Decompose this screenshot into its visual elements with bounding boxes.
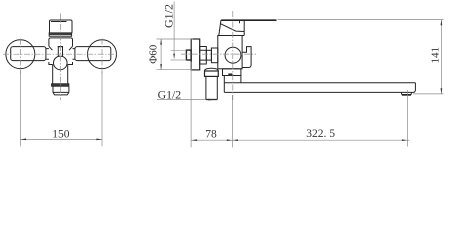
spout collar under body [223,69,241,76]
spout tip taper front [53,92,69,95]
diverter knob circle side [225,47,241,63]
svg-text:322. 5: 322. 5 [306,128,335,140]
pipe side [206,50,211,60]
spout lower section front [53,86,69,92]
union tube right [75,47,111,61]
arrow G1/2 bottom leader [208,99,214,101]
centerline vertical right circle [101,39,103,75]
diverter knob circle front [54,56,68,70]
wall pipe thin lines [170,50,186,60]
svg-text:141: 141 [430,47,442,64]
spout nut band front [52,84,69,86]
wall flange circle right [88,40,117,69]
diverter stem front [58,47,62,57]
union nut side [200,47,207,65]
cartridge cap front [50,20,73,33]
pipe segment left [46,49,49,60]
centerline vertical main front [60,14,62,101]
arrow 78 right [227,139,233,141]
dim line 141 [440,20,442,94]
stem top cap [58,46,63,48]
arrow 150 left [20,139,26,141]
aerator tip [401,92,411,94]
arrow 150 right [96,139,102,141]
centerline horizontal side view [181,53,256,55]
wall pipe stub [186,50,191,60]
ext line phi60 top [157,38,194,40]
cap flange front [49,33,71,36]
svg-text:G1/2: G1/2 [158,87,182,101]
dim line bottom right view [191,139,409,141]
centerline vertical body side [232,11,234,100]
ext line 78/322.5 shared [231,95,233,147]
aerator bottom [402,94,411,96]
ext line 141 top [278,19,444,21]
leader G1/2 bottom shelf [157,99,206,101]
arrow phi60 bottom [160,64,162,70]
arrow 141 bottom [441,88,443,94]
pipe segment right [73,49,75,60]
arrow G1/2 top leader [173,54,175,60]
outlet tube bottom [206,99,217,101]
body top plate line [218,35,244,37]
ext line 322.5 right [407,90,409,147]
svg-text:150: 150 [52,128,69,140]
centerline horizontal front view [3,53,118,55]
union tube left [11,47,46,61]
shower outlet boss side [242,47,251,68]
union nut facets [200,50,207,60]
wall flange circle left [6,40,35,69]
centerline vertical left circle [19,39,21,75]
spout neck [224,76,241,83]
escutcheon disc side [191,39,200,70]
cartridge cap side [219,20,244,36]
outlet tube down [206,76,217,99]
ext line 141 bottom [413,93,444,95]
collar screw [228,73,232,75]
ext line 78 left [190,62,192,147]
svg-text:G1/2: G1/2 [161,4,175,28]
dim line phi60 [160,39,162,70]
cap flange mid line [49,33,71,35]
extension line right 150 [101,71,103,146]
svg-text:78: 78 [205,129,217,141]
handle lever bar [221,19,276,21]
svg-text:Φ60: Φ60 [148,44,160,64]
body side [218,36,242,69]
arrow 78 left [191,139,197,141]
spout upper section front [53,65,68,84]
arrow 322.5 left [232,139,238,141]
arrow 141 top [441,20,443,26]
extension line left 150 [19,71,21,146]
body shoulder fillets front [49,46,73,50]
leader G1/2 top [173,2,175,54]
arrow 322.5 right [402,139,408,141]
arrow phi60 top [160,39,162,45]
body front [49,38,73,65]
check valve collar [205,71,219,76]
ext line phi60 bottom [157,69,193,71]
check valve dome [205,68,219,71]
dimension line 150 [20,138,102,140]
spout tube [224,83,415,93]
eccentric connector side [211,48,217,63]
cap rim line [51,21,67,23]
